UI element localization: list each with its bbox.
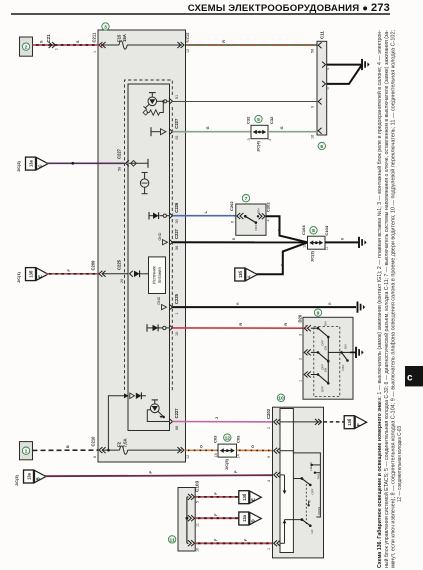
svg-text:1: 1	[175, 312, 179, 314]
svg-text:мкнут, если ключ извлечен); 8: мкнут, если ключ извлечен); 8 — соединит…	[389, 30, 396, 568]
C03 pin 14	[237, 454, 241, 458]
svg-text:12: 12	[186, 49, 190, 53]
component number 10	[277, 394, 284, 402]
branch arrow	[124, 392, 146, 399]
wire label O2	[251, 445, 255, 448]
mechanical link	[305, 484, 307, 525]
wire GND56 black to C104	[173, 241, 308, 243]
D20 switch 4	[340, 345, 350, 371]
caption line 3	[389, 30, 396, 568]
svg-text:2: 2	[267, 427, 271, 429]
svg-text:F: F	[244, 538, 248, 541]
ground G2	[359, 237, 367, 248]
svg-text:ON: ON	[324, 368, 328, 373]
wire W2 violet to ETACS	[47, 162, 125, 164]
wire W5 maroon	[45, 475, 273, 476]
C103 pin 10	[187, 540, 199, 552]
svg-text:GND: GND	[158, 232, 162, 240]
svg-text:C227: C227	[174, 118, 179, 129]
label C03 right	[235, 435, 240, 443]
transistor driver Q2	[147, 400, 169, 422]
wire label B1	[277, 228, 281, 231]
svg-text:1: 1	[55, 48, 59, 50]
wire label E1	[214, 492, 218, 495]
svg-text:B: B	[232, 237, 236, 240]
ETACS pin 56 C227	[169, 228, 179, 250]
svg-text:ON: ON	[344, 345, 348, 350]
dimmer switch contacts	[301, 500, 322, 533]
wire C11 pin4 to ground	[327, 64, 362, 66]
svg-text:E: E	[251, 498, 256, 501]
svg-text:СХЕМЫ ЭЛЕКТРООБОРУДОВАНИЯ ● 27: СХЕМЫ ЭЛЕКТРООБОРУДОВАНИЯ ● 273	[188, 2, 390, 14]
wire label G2	[280, 126, 284, 129]
label C211	[92, 32, 97, 42]
caption line 1	[376, 30, 383, 568]
svg-text:OFF: OFF	[310, 488, 314, 494]
svg-text:68: 68	[175, 426, 179, 430]
svg-text:S: S	[76, 40, 80, 43]
svg-text:R: R	[239, 323, 243, 326]
ETACS pin 58 entry	[126, 159, 149, 168]
svg-text:6: 6	[231, 221, 235, 223]
wire R1 green/red C212 to C11	[186, 44, 317, 46]
svg-text:F15: F15	[117, 34, 122, 42]
svg-text:C225: C225	[117, 259, 122, 270]
svg-text:61: 61	[175, 135, 179, 139]
svg-text:C227: C227	[174, 228, 179, 239]
svg-text:5: 5	[195, 501, 199, 503]
svg-text:11: 11	[325, 246, 329, 250]
wire pin3 jog	[280, 475, 302, 494]
component number 4	[131, 87, 138, 95]
relay-fuse box 3 outline	[98, 30, 186, 462]
svg-text:20: 20	[120, 279, 124, 283]
svg-text:C03: C03	[212, 435, 217, 443]
svg-text:13б: 13б	[238, 270, 243, 278]
wire R3 green to C32	[173, 131, 252, 133]
wire label J	[215, 417, 219, 419]
svg-text:3: 3	[104, 24, 107, 30]
svg-text:C211: C211	[92, 32, 97, 42]
svg-text:J/C(4): J/C(4)	[256, 140, 261, 152]
svg-text:L: L	[204, 210, 208, 213]
wire label E3	[214, 538, 248, 541]
D20 pin 3	[298, 325, 311, 336]
C03 pin 15	[214, 453, 218, 457]
fusible link box 2	[20, 37, 33, 56]
svg-text:C202: C202	[229, 201, 234, 211]
svg-text:E: E	[37, 275, 42, 278]
svg-text:58: 58	[311, 49, 315, 53]
wire label L	[204, 210, 208, 213]
wire label B5	[236, 302, 332, 305]
svg-text:58: 58	[118, 167, 122, 171]
ground G4	[356, 347, 364, 358]
svg-text:HI: HI	[308, 500, 312, 503]
header rule	[11, 13, 390, 15]
svg-text:F2: F2	[117, 441, 122, 447]
svg-text:C210: C210	[91, 436, 96, 447]
svg-text:15A: 15A	[122, 34, 127, 42]
wire label S 2	[76, 40, 80, 43]
wire label E2	[214, 513, 218, 516]
svg-text:P: P	[234, 470, 238, 473]
svg-text:F: F	[214, 492, 218, 495]
junction marker J/C(2) 13a-B	[14, 470, 46, 486]
svg-text:1: 1	[298, 380, 302, 382]
wire R2 to C11 pin 9	[173, 101, 318, 103]
svg-text:ON: ON	[324, 322, 328, 327]
svg-text:3: 3	[267, 480, 271, 482]
svg-text:C32: C32	[245, 116, 250, 124]
header page title	[188, 2, 390, 14]
power source box	[149, 257, 166, 294]
svg-text:9: 9	[311, 106, 315, 108]
svg-text:ON: ON	[257, 209, 261, 214]
C209 entry	[99, 271, 128, 277]
svg-text:G: G	[280, 126, 284, 129]
label C227 pin58	[117, 148, 122, 171]
wire W1 red/black component2 to C211	[33, 44, 99, 46]
svg-text:13б: 13б	[29, 270, 34, 278]
svg-text:D20: D20	[297, 314, 302, 322]
label C203	[266, 408, 271, 419]
svg-text:1: 1	[25, 449, 28, 455]
ETACS pin 1 C225	[169, 293, 179, 314]
wire C103 pin11 red/black	[195, 517, 239, 519]
junction marker 13b-A	[235, 268, 257, 281]
svg-text:9: 9	[267, 456, 271, 458]
C202 pin 4	[259, 213, 271, 221]
pin 2 entry	[267, 419, 280, 429]
wire label B3	[341, 237, 345, 240]
svg-text:4: 4	[268, 139, 272, 141]
bus junction dot	[107, 449, 110, 452]
svg-text:10: 10	[195, 548, 199, 552]
wire D20 to ground	[350, 351, 356, 353]
ETACS pin 61 C227	[169, 118, 179, 139]
pin2 exit chevron	[315, 419, 322, 425]
svg-text:12 — соединительная колодка С-: 12 — соединительная колодка С-03	[397, 426, 403, 502]
svg-text:Схема 136. Габаритное освещени: Схема 136. Габаритное освещение и освеще…	[376, 30, 383, 568]
svg-text:12: 12	[186, 455, 190, 459]
svg-text:9: 9	[317, 311, 320, 317]
light switch bus	[293, 453, 320, 517]
junction marker 13b-E2	[239, 491, 261, 504]
connector C21 chevron	[49, 42, 56, 48]
label C32 left	[245, 116, 250, 124]
column switch inner panel	[280, 409, 293, 553]
svg-text:4: 4	[266, 219, 270, 221]
label F15 15A	[117, 34, 128, 42]
junction marker 13b-F	[344, 416, 367, 429]
svg-text:C32: C32	[269, 116, 274, 124]
wire R7 orange a	[186, 449, 219, 451]
svg-text:OFF: OFF	[321, 386, 325, 392]
C103 pin 11	[187, 515, 199, 527]
svg-text:13б: 13б	[347, 418, 352, 426]
ETACS unit 4 dashed boundary	[125, 80, 173, 391]
svg-text:J/C(5): J/C(5)	[224, 458, 229, 470]
svg-text:J/C(2): J/C(2)	[14, 474, 19, 486]
svg-text:C104: C104	[324, 225, 329, 235]
svg-text:13a: 13a	[29, 159, 34, 167]
svg-text:14: 14	[237, 454, 241, 458]
ETACS GND 1 symbol	[157, 296, 167, 309]
svg-text:C203: C203	[266, 408, 271, 419]
component number 3	[102, 23, 109, 31]
D20 pin 1 entry	[298, 372, 311, 383]
label C103	[195, 480, 200, 492]
label C210	[91, 436, 96, 447]
svg-text:ный блок управления системой E: ный блок управления системой ETACS; 5 — …	[383, 30, 390, 568]
wire C11 pin5 to ground	[327, 65, 362, 84]
svg-text:56: 56	[175, 246, 179, 250]
C202 switch contacts	[244, 209, 261, 231]
wire label B4	[280, 263, 284, 266]
D20 dashed box	[314, 326, 340, 396]
svg-text:11: 11	[170, 537, 175, 543]
svg-text:12: 12	[225, 436, 231, 442]
component number 2	[22, 43, 29, 51]
C11 pin 16	[311, 128, 322, 139]
label J/C(3)	[310, 250, 315, 262]
C210 pin 6	[93, 447, 106, 458]
pin 1 C211	[93, 42, 106, 53]
bus wire with fuse F2	[103, 446, 183, 454]
wire label O1	[200, 445, 204, 448]
svg-text:питания: питания	[157, 267, 162, 283]
wire label B2	[232, 237, 236, 240]
svg-text:6: 6	[93, 456, 97, 458]
C32 pin 4	[268, 139, 272, 141]
svg-text:C227: C227	[117, 148, 122, 159]
label C225 pin20	[117, 259, 125, 283]
connector C103	[178, 488, 195, 552]
svg-text:16: 16	[311, 135, 315, 139]
wire C103 pin10 red/black	[195, 542, 272, 544]
svg-text:4: 4	[326, 68, 330, 70]
wire label G	[206, 126, 210, 129]
ground G3	[358, 302, 366, 313]
svg-text:8: 8	[312, 228, 315, 234]
svg-text:F: F	[214, 538, 218, 541]
svg-text:TAIL: TAIL	[317, 473, 321, 479]
svg-text:B: B	[341, 237, 345, 240]
label C104 right	[324, 225, 329, 235]
svg-text:C225: C225	[174, 293, 179, 304]
svg-text:OFF: OFF	[321, 340, 325, 346]
svg-text:7,5A: 7,5A	[122, 438, 127, 447]
svg-text:5: 5	[326, 87, 330, 89]
wire label S	[40, 40, 44, 43]
label D20	[297, 314, 302, 322]
splice dot	[71, 162, 74, 165]
svg-text:GND: GND	[157, 296, 161, 304]
internal branch wire	[108, 396, 124, 450]
ground G1 top right	[362, 59, 370, 70]
svg-text:P: P	[149, 471, 153, 474]
component number 9	[314, 309, 321, 317]
svg-text:C03: C03	[235, 435, 240, 443]
svg-text:5: 5	[257, 117, 260, 123]
component number 7	[242, 195, 249, 203]
pin 9 entry	[267, 448, 280, 458]
wire dashed to 13b-F	[324, 421, 345, 423]
svg-text:ON: ON	[324, 346, 328, 351]
svg-text:S: S	[40, 40, 44, 43]
svg-text:J: J	[215, 417, 219, 419]
svg-text:30: 30	[175, 219, 179, 223]
svg-text:C227: C227	[174, 408, 179, 419]
caption line 4	[397, 426, 403, 502]
wire C103 pin5 red/black	[195, 496, 239, 498]
svg-text:R: R	[284, 323, 288, 326]
D20 output bus	[328, 337, 341, 383]
junction connector C03 (12)	[218, 444, 237, 457]
C202 pin 6	[231, 213, 244, 223]
svg-text:PASS: PASS	[317, 507, 321, 515]
svg-text:3: 3	[247, 138, 251, 140]
ETACS pin 30 C226	[169, 202, 179, 223]
label C209	[91, 260, 96, 271]
label C03 left	[212, 435, 217, 443]
C11 pin 9	[311, 99, 322, 109]
C11 pin 4	[322, 62, 330, 70]
junction connector C104 (8)	[308, 236, 326, 249]
label C11	[320, 31, 325, 39]
svg-text:C103: C103	[195, 480, 200, 492]
svg-text:J/C(2): J/C(2)	[16, 160, 21, 172]
section tab C	[405, 366, 423, 386]
label C104 left	[301, 225, 306, 235]
wire GND1 black to ground	[173, 306, 357, 308]
svg-text:15: 15	[214, 453, 218, 457]
label C21	[46, 34, 59, 50]
svg-text:2: 2	[298, 358, 302, 360]
wire R5 red to D20	[173, 327, 304, 329]
ignition switch box 1	[20, 442, 33, 460]
light switch contacts	[301, 461, 321, 494]
ETACS inner logic box	[128, 84, 170, 431]
svg-text:J/C(1): J/C(1)	[16, 271, 21, 283]
svg-text:OFF: OFF	[254, 224, 258, 230]
svg-text:OFF: OFF	[341, 364, 345, 370]
junction marker 13a-D	[239, 512, 261, 525]
C104 pin 10	[302, 244, 306, 248]
diagnostic connector C11	[317, 41, 327, 135]
C103 pin 5	[187, 494, 199, 503]
wire label R	[222, 40, 226, 43]
svg-text:1: 1	[93, 51, 97, 53]
D20 switch 3	[311, 368, 330, 392]
ETACS pin 51	[157, 95, 179, 105]
wire pin1 jog	[280, 520, 302, 544]
label F2 7,5A	[117, 438, 128, 447]
svg-text:C104: C104	[301, 225, 306, 235]
D20 switch 1	[311, 322, 330, 346]
svg-text:C11: C11	[320, 31, 325, 39]
junction marker J/C(1) 13b-E	[16, 268, 48, 283]
svg-text:c: c	[407, 373, 413, 384]
pin 1 entry	[267, 540, 280, 550]
svg-text:3: 3	[298, 334, 302, 336]
wire pin2 through	[280, 421, 322, 423]
svg-text:R: R	[222, 40, 226, 43]
C104 pin 11	[325, 246, 329, 250]
component number 8	[310, 227, 317, 235]
pin 12 exit	[177, 447, 189, 459]
svg-text:B: B	[66, 445, 70, 448]
svg-text:13б: 13б	[242, 493, 247, 501]
junction connector C32 (5)	[251, 125, 268, 138]
ETACS pin 68 C227	[169, 408, 179, 430]
svg-text:10: 10	[175, 332, 179, 336]
D20 pin 2 entry	[298, 349, 311, 360]
C11 pin 58	[311, 42, 322, 53]
svg-text:13a: 13a	[27, 472, 32, 480]
svg-text:C202: C202	[265, 202, 270, 212]
connector group dash	[0, 0, 1, 1]
svg-text:B: B	[328, 302, 332, 305]
svg-text:51: 51	[175, 95, 179, 99]
wire label W5	[149, 470, 238, 474]
label C32 right	[269, 116, 274, 124]
svg-text:13a: 13a	[242, 514, 247, 522]
svg-text:F: F	[214, 513, 218, 516]
label C202 left	[229, 201, 234, 211]
junction marker J/C(2) 13a-C	[16, 157, 48, 172]
label C202 right	[265, 202, 270, 212]
wire label F	[67, 269, 71, 272]
svg-text:O: O	[251, 445, 255, 448]
wire R7 orange b	[237, 449, 273, 451]
component number 12	[224, 434, 231, 442]
svg-text:2: 2	[25, 45, 28, 51]
D20 switch 2	[311, 346, 330, 370]
svg-text:C21: C21	[46, 34, 51, 43]
C11 pin 5	[322, 81, 330, 90]
wire C202 pin4 to C104	[266, 216, 308, 242]
ETACS pin 10	[169, 325, 179, 336]
component number 1	[22, 447, 29, 455]
wire W4 black dashed to C210	[33, 449, 99, 451]
svg-text:HEAD: HEAD	[309, 461, 313, 470]
door switch box D20	[303, 317, 353, 399]
svg-text:G: G	[206, 126, 210, 129]
svg-text:6: 6	[320, 144, 323, 150]
svg-text:F: F	[67, 269, 71, 272]
svg-text:LO: LO	[310, 529, 314, 534]
component number 6	[318, 142, 325, 150]
svg-text:C226: C226	[174, 202, 179, 213]
svg-text:J/C(3): J/C(3)	[310, 250, 315, 262]
ETACS diode pin10	[147, 324, 170, 332]
svg-text:F: F	[356, 423, 361, 426]
svg-text:7: 7	[245, 196, 248, 202]
wire pin9 into panel	[280, 451, 293, 453]
component number 5	[255, 115, 262, 123]
svg-text:C209: C209	[91, 260, 96, 271]
ETACS pin20 entry diode	[130, 270, 149, 277]
wire to marker A	[256, 242, 307, 274]
wire R4 blue to C202	[173, 215, 236, 217]
transistor driver Q1	[143, 93, 164, 116]
caption line 2	[383, 30, 390, 568]
svg-text:B: B	[236, 302, 240, 305]
component number 11	[168, 536, 175, 544]
pin 12 C212 exit	[177, 32, 190, 53]
